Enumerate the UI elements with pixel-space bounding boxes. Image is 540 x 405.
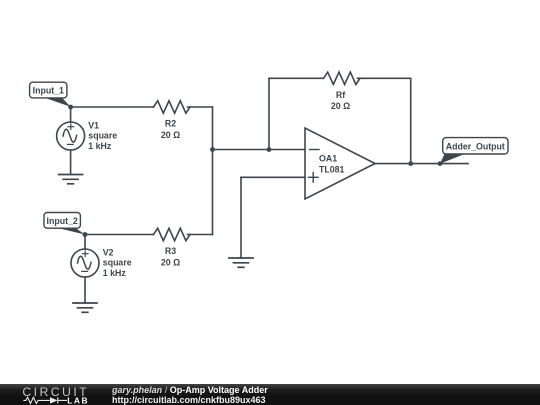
svg-text:1 kHz: 1 kHz bbox=[103, 268, 127, 278]
voltage source V1 bbox=[57, 122, 85, 150]
flag Adder_Output bbox=[440, 138, 508, 164]
svg-text:V1: V1 bbox=[88, 120, 99, 130]
svg-text:20 Ω: 20 Ω bbox=[331, 101, 350, 111]
wire feedback left vertical bbox=[268, 78, 270, 149]
svg-text:1 kHz: 1 kHz bbox=[88, 141, 112, 151]
svg-text:Input_1: Input_1 bbox=[33, 86, 64, 96]
wire Input_2 node to R3 bbox=[85, 234, 154, 236]
attribution text bbox=[112, 383, 532, 385]
ground V1 bbox=[59, 175, 83, 184]
wire summing node to inverting input bbox=[213, 149, 306, 151]
wire V1 bottom lead bbox=[70, 150, 72, 175]
svg-text:Rf: Rf bbox=[336, 90, 345, 100]
junction Input_2 node bbox=[83, 232, 88, 237]
wire Input_1 node to R2 bbox=[71, 106, 154, 108]
svg-text:20 Ω: 20 Ω bbox=[161, 130, 180, 140]
svg-text:R3: R3 bbox=[165, 246, 176, 256]
svg-text:20 Ω: 20 Ω bbox=[161, 257, 180, 267]
wire summing vertical (R2/R3 join) bbox=[212, 107, 214, 235]
svg-text:OA1: OA1 bbox=[319, 154, 337, 164]
op-amp OA1 bbox=[305, 128, 375, 199]
svg-text:square: square bbox=[88, 131, 117, 141]
svg-text:R2: R2 bbox=[165, 119, 176, 129]
voltage source V2 bbox=[71, 249, 99, 277]
wire non-inverting input vertical bbox=[240, 177, 242, 258]
wire V1 top lead bbox=[70, 107, 72, 122]
junction output flag tap bbox=[438, 161, 443, 166]
resistor R3 bbox=[154, 228, 191, 240]
wire V2 top lead bbox=[84, 235, 86, 250]
junction output feedback bbox=[408, 161, 413, 166]
ground V2 bbox=[73, 303, 97, 312]
svg-text:V2: V2 bbox=[103, 247, 114, 257]
wire V2 bottom lead bbox=[84, 277, 86, 303]
svg-text:square: square bbox=[103, 258, 132, 268]
CircuitLab logo bbox=[18, 384, 102, 405]
junction Input_1 node bbox=[68, 105, 73, 110]
wire R2 to summing vertical bbox=[188, 106, 213, 108]
ground non-inverting input bbox=[229, 258, 253, 267]
flag Input_1 bbox=[30, 82, 71, 107]
svg-text:LAB: LAB bbox=[67, 395, 89, 405]
junction summing node at R2 bbox=[210, 147, 215, 152]
junction feedback tap bbox=[267, 147, 272, 152]
footer bar bbox=[0, 384, 540, 405]
svg-text:Adder_Output: Adder_Output bbox=[446, 141, 505, 151]
svg-text:TL081: TL081 bbox=[319, 164, 345, 174]
flag Input_2 bbox=[44, 213, 85, 235]
wire feedback right vertical bbox=[410, 78, 412, 163]
resistor Rf bbox=[324, 72, 361, 84]
resistor R2 bbox=[154, 101, 191, 113]
wire R3 to summing vertical bbox=[188, 234, 213, 236]
wire feedback top right bbox=[358, 77, 411, 79]
svg-text:Input_2: Input_2 bbox=[47, 216, 78, 226]
wire non-inverting input horizontal bbox=[241, 176, 305, 178]
wire feedback top left bbox=[269, 77, 324, 79]
wire op-amp output bbox=[375, 163, 468, 165]
